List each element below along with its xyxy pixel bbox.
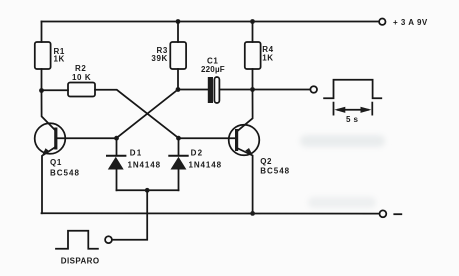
node D2 Q2-base xyxy=(176,136,181,141)
svg-text:D1: D1 xyxy=(130,149,143,158)
resistor R2 xyxy=(68,83,95,97)
scan smudge lower right xyxy=(308,197,376,208)
node junction R1 R2 Q1-collector xyxy=(39,88,44,93)
wire R4 bottom lead xyxy=(252,69,254,90)
wire R2 left lead xyxy=(42,89,69,91)
wire D2 bottom lead xyxy=(178,170,180,191)
svg-text:D2: D2 xyxy=(191,149,204,158)
waveform dimension tick left xyxy=(333,103,335,115)
transistor Q2 xyxy=(229,125,260,156)
diode D1 xyxy=(107,156,125,170)
svg-text:10 K: 10 K xyxy=(72,73,91,82)
svg-text:Q1: Q1 xyxy=(50,158,62,167)
waveform dimension arrow xyxy=(334,107,371,113)
wire Q2 emitter xyxy=(238,148,253,213)
wire trigger xyxy=(112,190,147,239)
transistor Q1 xyxy=(35,123,66,154)
svg-text:1N4148: 1N4148 xyxy=(128,161,161,170)
wire cross-coupling C1-node to Q1 base xyxy=(117,90,179,139)
wire Q2 collector xyxy=(238,90,253,131)
resistor R3 xyxy=(170,42,186,69)
node junction Q2 emitter bottom rail xyxy=(250,211,255,216)
resistor R4 xyxy=(245,42,261,69)
trigger pulse symbol xyxy=(56,231,98,249)
resistor R1 xyxy=(35,42,51,69)
terminal trigger input xyxy=(105,236,112,243)
svg-text:1K: 1K xyxy=(262,54,273,63)
node junction top rail R3 xyxy=(176,19,181,24)
wire Q1 emitter xyxy=(42,147,56,213)
svg-text:DISPARO: DISPARO xyxy=(61,257,100,266)
scan smudge upper right xyxy=(300,135,385,147)
terminal output xyxy=(310,86,317,93)
wire C1 left lead xyxy=(178,89,208,91)
wire Q2 base xyxy=(179,137,236,139)
diode D2 xyxy=(169,156,187,170)
wire D2 top lead xyxy=(178,138,180,156)
node junction R4 C1 Q2-collector output xyxy=(250,87,255,92)
wire R2 right lead cross-coupling to Q2 base xyxy=(95,90,179,138)
wire R1 top lead xyxy=(41,22,43,43)
wire output xyxy=(253,89,311,91)
svg-text:5 s: 5 s xyxy=(346,115,358,124)
capacitor C1 xyxy=(208,77,220,103)
output waveform symbol xyxy=(324,80,381,99)
wire C1 right lead xyxy=(219,89,252,91)
wire D1 top lead xyxy=(116,138,118,156)
svg-text:BC548: BC548 xyxy=(260,167,290,176)
wire top rail xyxy=(42,21,379,23)
node junction top rail R4 xyxy=(250,19,255,24)
wire Q1 collector xyxy=(42,91,56,131)
wire D1 bottom lead xyxy=(116,170,118,191)
label minus xyxy=(394,213,401,215)
svg-text:39K: 39K xyxy=(151,54,167,63)
wire bottom rail xyxy=(42,212,380,214)
svg-text:1K: 1K xyxy=(54,55,65,64)
node Q1 base D1 xyxy=(114,136,119,141)
svg-text:+ 3 A 9V: + 3 A 9V xyxy=(393,18,428,27)
wire R3 bottom lead xyxy=(177,69,179,90)
svg-text:Q2: Q2 xyxy=(260,157,272,166)
wire Q1 base xyxy=(58,137,117,139)
svg-text:R2: R2 xyxy=(75,64,86,73)
terminal +V xyxy=(379,19,385,25)
waveform dimension tick right xyxy=(371,103,373,115)
wire diode common connector xyxy=(117,189,179,191)
node junction R3 C1 xyxy=(176,87,181,92)
terminal minus xyxy=(380,210,387,217)
wire R4 top lead xyxy=(252,22,254,43)
node junction trigger xyxy=(145,188,150,193)
wire R3 top lead xyxy=(177,22,179,43)
svg-text:BC548: BC548 xyxy=(50,169,80,178)
wire R1 bottom lead xyxy=(41,69,43,91)
svg-text:1N4148: 1N4148 xyxy=(189,161,222,170)
svg-text:220µF: 220µF xyxy=(201,65,225,74)
